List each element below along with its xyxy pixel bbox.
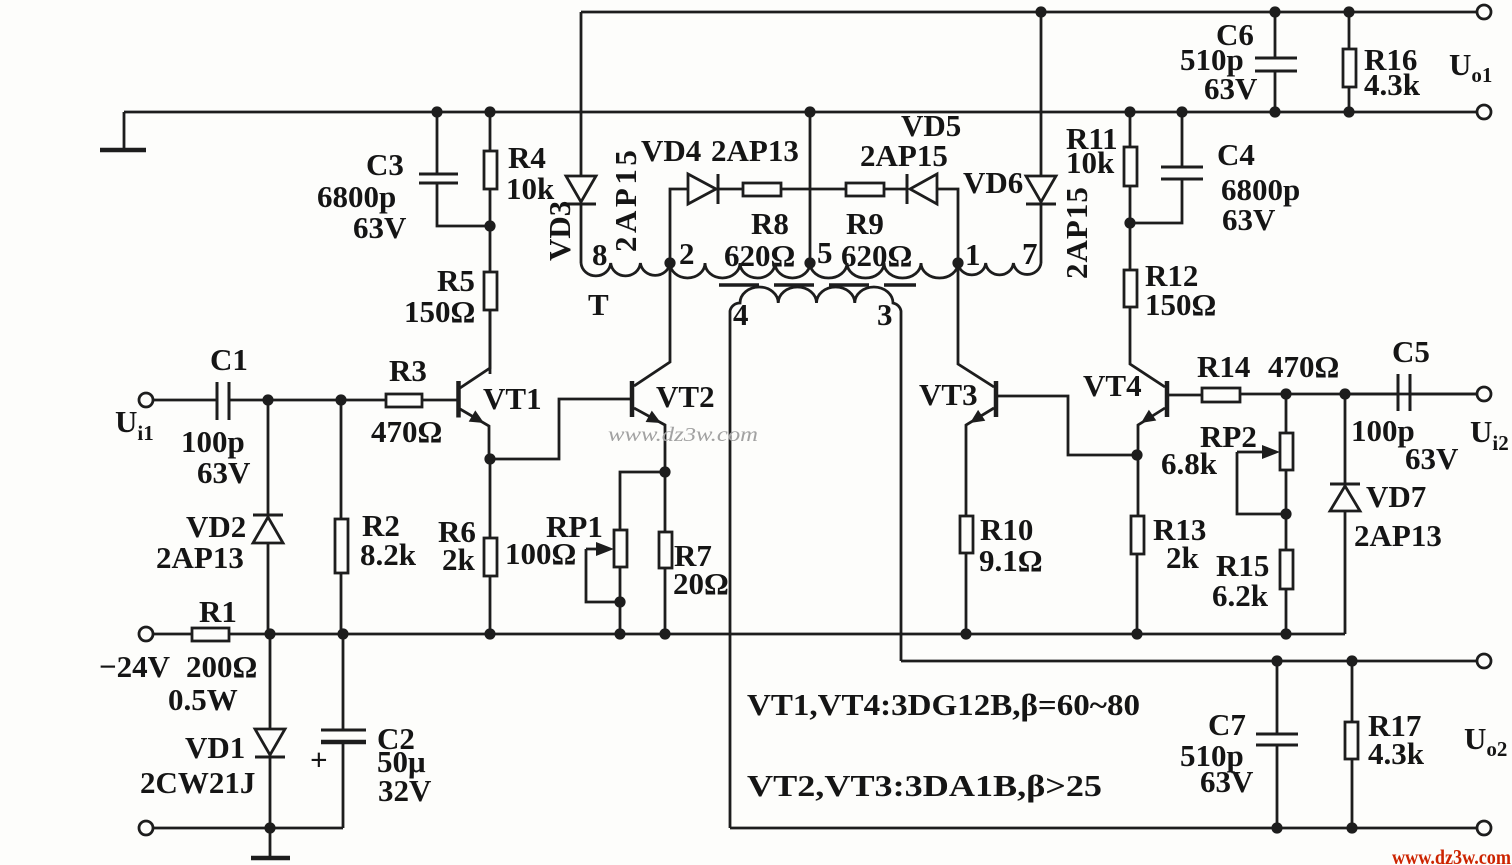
svg-text:VD2: VD2 <box>186 509 246 544</box>
node R4 top <box>484 106 495 117</box>
svg-text:Ui1: Ui1 <box>115 404 154 445</box>
node VD1 top <box>264 628 275 639</box>
node pin 1 <box>952 257 963 268</box>
transformer pin labels <box>588 235 1038 332</box>
svg-text:R10: R10 <box>980 512 1033 547</box>
svg-text:8.2k: 8.2k <box>360 537 417 572</box>
wire top rail <box>581 11 1477 14</box>
node pin 2 <box>664 257 675 268</box>
node C3 top <box>431 106 442 117</box>
node C2 top <box>337 628 348 639</box>
node VT2 emitter junction <box>659 466 670 477</box>
svg-text:2AP15: 2AP15 <box>860 138 948 173</box>
wire ground rail (second rail) <box>124 111 1477 114</box>
resistor R17 <box>1345 661 1425 828</box>
svg-text:VT3: VT3 <box>919 377 978 412</box>
svg-text:R5: R5 <box>437 263 475 298</box>
potentiometer RP2 <box>1161 394 1293 550</box>
svg-text:VD7: VD7 <box>1366 479 1426 514</box>
svg-text:R9: R9 <box>846 206 884 241</box>
svg-text:+: + <box>310 742 328 777</box>
node R16 top <box>1343 6 1354 17</box>
diode VD7 <box>1330 394 1442 634</box>
ground (bottom) <box>251 828 290 858</box>
svg-text:20Ω: 20Ω <box>673 566 729 601</box>
transistor VT4 <box>1083 306 1167 516</box>
svg-text:2AP13: 2AP13 <box>1354 518 1442 553</box>
capacitor C4 <box>1130 112 1300 237</box>
potentiometer RP1 <box>505 472 665 634</box>
svg-text:6.2k: 6.2k <box>1212 578 1269 613</box>
terminal Uo1 top <box>1477 5 1491 19</box>
diode VD6 <box>963 12 1094 279</box>
wire bottom left rail <box>152 827 343 830</box>
capacitor C5 <box>1345 334 1477 476</box>
svg-text:2AP13: 2AP13 <box>711 133 799 168</box>
node R11 top <box>1124 106 1135 117</box>
svg-text:R3: R3 <box>389 353 427 388</box>
svg-text:4: 4 <box>733 297 749 332</box>
svg-text:VD1: VD1 <box>185 730 245 765</box>
svg-text:−24V: −24V <box>99 649 171 684</box>
node R17 top <box>1346 655 1357 666</box>
node RP1 bottom rail <box>614 628 625 639</box>
svg-text:2CW21J: 2CW21J <box>140 765 255 800</box>
node VD1 bottom <box>264 822 275 833</box>
terminal Uo2 top <box>1477 654 1491 668</box>
svg-text:100Ω: 100Ω <box>505 536 576 571</box>
svg-text:VD4: VD4 <box>641 133 701 168</box>
diode VD2 <box>156 400 283 634</box>
node R13 bottom rail <box>1131 628 1142 639</box>
capacitor C1 <box>152 342 386 490</box>
svg-text:1: 1 <box>965 237 981 272</box>
diode VD3 <box>542 12 643 263</box>
capacitor C7 <box>1180 661 1298 828</box>
diode VD5 <box>860 108 961 263</box>
svg-text:C3: C3 <box>366 147 404 182</box>
wire Uo2 top rail <box>901 660 1477 663</box>
svg-text:VT1,VT4:3DG12B,β=60~80: VT1,VT4:3DG12B,β=60~80 <box>747 687 1140 722</box>
svg-text:2k: 2k <box>442 542 476 577</box>
diode VD1 zener <box>140 634 285 828</box>
svg-text:5: 5 <box>817 235 833 270</box>
node C7 bottom <box>1271 822 1282 833</box>
svg-text:3: 3 <box>877 297 893 332</box>
node R2 top junction <box>335 394 346 405</box>
terminal Uo1 bottom <box>1477 105 1491 119</box>
node R10 bottom rail <box>960 628 971 639</box>
capacitor C6 <box>1180 12 1297 112</box>
resistor R6 <box>438 459 497 634</box>
node VD7 top <box>1339 388 1350 399</box>
svg-text:www.dz3w.com: www.dz3w.com <box>608 424 758 446</box>
svg-text:VD6: VD6 <box>963 165 1023 200</box>
svg-text:R14: R14 <box>1197 349 1250 384</box>
node C4 top <box>1176 106 1187 117</box>
node R7 bottom rail <box>659 628 670 639</box>
svg-text:6.8k: 6.8k <box>1161 446 1218 481</box>
svg-text:63V: 63V <box>353 210 407 245</box>
node pin5 rail <box>804 106 815 117</box>
svg-text:7: 7 <box>1022 236 1038 271</box>
node RP2 top <box>1280 388 1291 399</box>
svg-text:VT1: VT1 <box>483 381 542 416</box>
resistor R15 <box>1212 548 1293 634</box>
diode VD4 <box>641 133 799 204</box>
svg-text:VT2,VT3:3DA1B,β>25: VT2,VT3:3DA1B,β>25 <box>747 768 1102 803</box>
wire pin2 to VD4 <box>670 189 688 263</box>
resistor R9 <box>841 183 912 273</box>
resistor R1 <box>152 594 1345 717</box>
resistor R2 <box>335 400 417 634</box>
svg-text:9.1Ω: 9.1Ω <box>979 543 1043 578</box>
node VT4 emitter junction <box>1131 449 1142 460</box>
svg-text:2: 2 <box>679 236 695 271</box>
svg-text:Uo1: Uo1 <box>1449 47 1492 87</box>
svg-text:4.3k: 4.3k <box>1364 67 1421 102</box>
svg-text:4.3k: 4.3k <box>1368 736 1425 771</box>
transistor VT1 <box>459 310 542 459</box>
resistor R7 <box>659 472 729 634</box>
svg-text:T: T <box>588 287 609 322</box>
wire Uo2 bottom rail <box>730 827 1477 830</box>
transformer T primary winding <box>581 263 1041 278</box>
svg-text:2AP13: 2AP13 <box>156 540 244 575</box>
svg-text:www.dz3w.com: www.dz3w.com <box>1392 845 1511 865</box>
wire VT1 emitter to VT2 base <box>490 399 631 459</box>
node R15 bottom rail <box>1280 628 1291 639</box>
svg-text:32V: 32V <box>378 773 432 808</box>
terminal Ui1 <box>139 393 153 407</box>
svg-text:VT2: VT2 <box>656 379 715 414</box>
svg-text:63V: 63V <box>1405 441 1459 476</box>
svg-text:150Ω: 150Ω <box>1145 287 1216 322</box>
svg-text:63V: 63V <box>197 455 251 490</box>
svg-text:Ui2: Ui2 <box>1470 414 1509 455</box>
svg-text:620Ω: 620Ω <box>724 238 795 273</box>
transistor VT3 <box>919 263 996 516</box>
wire center tap pin5 to ground rail <box>809 112 812 263</box>
svg-text:470Ω: 470Ω <box>371 414 442 449</box>
svg-text:63V: 63V <box>1222 202 1276 237</box>
svg-text:2AP15: 2AP15 <box>1059 186 1094 279</box>
svg-text:2k: 2k <box>1166 540 1200 575</box>
svg-text:R1: R1 <box>199 594 237 629</box>
terminal Uo2 bottom <box>1477 821 1491 835</box>
svg-text:200Ω: 200Ω <box>186 649 257 684</box>
svg-text:C7: C7 <box>1208 707 1246 742</box>
svg-text:C4: C4 <box>1217 137 1255 172</box>
resistor R14 <box>1169 349 1477 402</box>
node R6 bottom rail <box>484 628 495 639</box>
svg-text:R4: R4 <box>508 140 546 175</box>
resistor R5 <box>404 226 497 374</box>
svg-text:8: 8 <box>592 237 608 272</box>
terminal -24V input <box>139 627 153 641</box>
transformer T secondary winding <box>730 287 901 828</box>
node R11/R12 junction <box>1124 217 1135 228</box>
capacitor C2 electrolytic <box>310 634 432 828</box>
svg-text:620Ω: 620Ω <box>841 238 912 273</box>
resistor R3 <box>371 353 459 449</box>
svg-text:C1: C1 <box>210 342 248 377</box>
node R16 bottom <box>1343 106 1354 117</box>
svg-text:2AP15: 2AP15 <box>608 147 643 252</box>
node R17 bottom <box>1346 822 1357 833</box>
node C6 bottom <box>1269 106 1280 117</box>
node C7 top <box>1271 655 1282 666</box>
node VT1 emitter junction <box>484 453 495 464</box>
transistor VT2 <box>632 263 715 472</box>
svg-text:0.5W: 0.5W <box>168 682 238 717</box>
svg-text:VD3: VD3 <box>542 201 577 261</box>
node C6 top <box>1269 6 1280 17</box>
node R4/R5 junction <box>484 220 495 231</box>
resistor R8 <box>724 183 846 273</box>
transformer core dashed line <box>719 283 916 286</box>
svg-text:C5: C5 <box>1392 334 1430 369</box>
resistor R16 <box>1343 12 1421 112</box>
resistor R4 <box>484 112 555 226</box>
svg-text:6800p: 6800p <box>317 179 396 214</box>
node RP2 wiper tie <box>1280 508 1291 519</box>
resistor R12 <box>1124 223 1216 322</box>
capacitor C3 <box>317 112 490 245</box>
terminal Ui2 <box>1477 387 1491 401</box>
terminal bottom left <box>139 821 153 835</box>
resistor R10 <box>960 512 1043 634</box>
svg-text:VT4: VT4 <box>1083 368 1142 403</box>
svg-text:63V: 63V <box>1204 71 1258 106</box>
svg-text:150Ω: 150Ω <box>404 294 475 329</box>
node C1/VD2 junction <box>262 394 273 405</box>
svg-text:Uo2: Uo2 <box>1464 721 1507 761</box>
svg-text:470Ω: 470Ω <box>1268 349 1339 384</box>
wire VT3 base to VT4 emitter node <box>998 396 1137 455</box>
ground (top left) <box>100 112 146 150</box>
svg-text:100p: 100p <box>181 424 245 459</box>
node top rail / VD6 junction <box>1035 6 1046 17</box>
svg-text:10k: 10k <box>1066 145 1115 180</box>
node pin 5 <box>804 257 815 268</box>
node RP1 wiper tie <box>614 596 625 607</box>
resistor R13 <box>1131 512 1206 634</box>
svg-text:R8: R8 <box>751 206 789 241</box>
svg-text:63V: 63V <box>1200 764 1254 799</box>
resistor R11 <box>1066 112 1137 223</box>
